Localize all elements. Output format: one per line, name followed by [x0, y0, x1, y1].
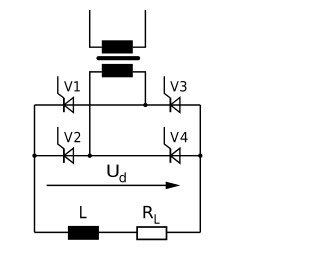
wire bottom load rail	[35, 231, 201, 233]
label L	[80, 206, 86, 218]
label V3	[170, 81, 186, 92]
label RL	[144, 206, 160, 224]
label V2	[64, 132, 80, 142]
thyristor V2	[58, 127, 74, 163]
thyristor V1	[58, 76, 74, 112]
node right bus junction dot	[198, 154, 202, 158]
wire primary right lead	[133, 10, 146, 47]
thyristor V4	[164, 127, 180, 163]
transformer primary winding	[102, 40, 133, 53]
wire secondary terminal a	[90, 72, 102, 156]
label Ud	[108, 165, 126, 183]
transformer core	[96, 56, 140, 60]
thyristor V3	[164, 76, 180, 112]
node left bus junction dot	[32, 154, 36, 158]
wire bridge top row	[35, 104, 201, 106]
transformer secondary winding	[102, 64, 133, 77]
wire right bus	[199, 105, 201, 232]
resistor RL	[137, 227, 166, 239]
label V1	[64, 81, 80, 91]
label V4	[170, 132, 187, 142]
node b junction dot	[143, 103, 147, 107]
wire left bus	[34, 105, 36, 232]
wire bridge bottom row	[35, 155, 201, 157]
wire primary left lead	[90, 10, 102, 47]
inductor L	[68, 226, 99, 240]
node a junction dot	[88, 154, 92, 158]
wire secondary terminal b	[133, 72, 146, 105]
Ud arrow	[47, 182, 181, 190]
